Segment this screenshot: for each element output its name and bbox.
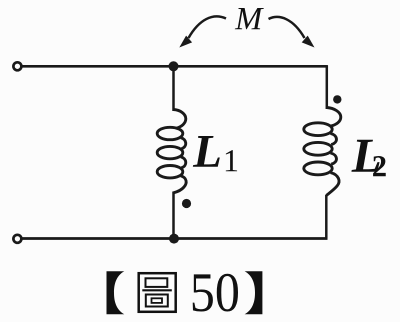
polarity dot L1: [182, 199, 191, 208]
inductor L1: [157, 110, 186, 193]
wire L2 top lead: [326, 65, 329, 109]
wire L2 bottom lead: [325, 195, 328, 239]
mutual arrow left: [179, 16, 226, 47]
caption number 50: [193, 274, 213, 311]
caption bracket right: [245, 271, 263, 314]
label M: [235, 8, 264, 29]
label L2: [351, 140, 379, 172]
caption bracket left: [107, 271, 125, 314]
mutual arrow right: [269, 17, 315, 48]
caption character tu (figure): [139, 273, 176, 312]
wire L1 bottom lead: [172, 192, 175, 239]
terminal top-left: [13, 62, 21, 70]
bottom wire: [20, 237, 328, 240]
node top junction: [169, 61, 179, 71]
wire L1 top lead: [172, 66, 175, 111]
inductor L2: [304, 108, 341, 196]
node bottom junction: [169, 234, 179, 244]
label L1: [193, 136, 220, 167]
top wire: [20, 65, 327, 68]
terminal bottom-left: [13, 235, 21, 243]
polarity dot L2: [333, 95, 341, 103]
